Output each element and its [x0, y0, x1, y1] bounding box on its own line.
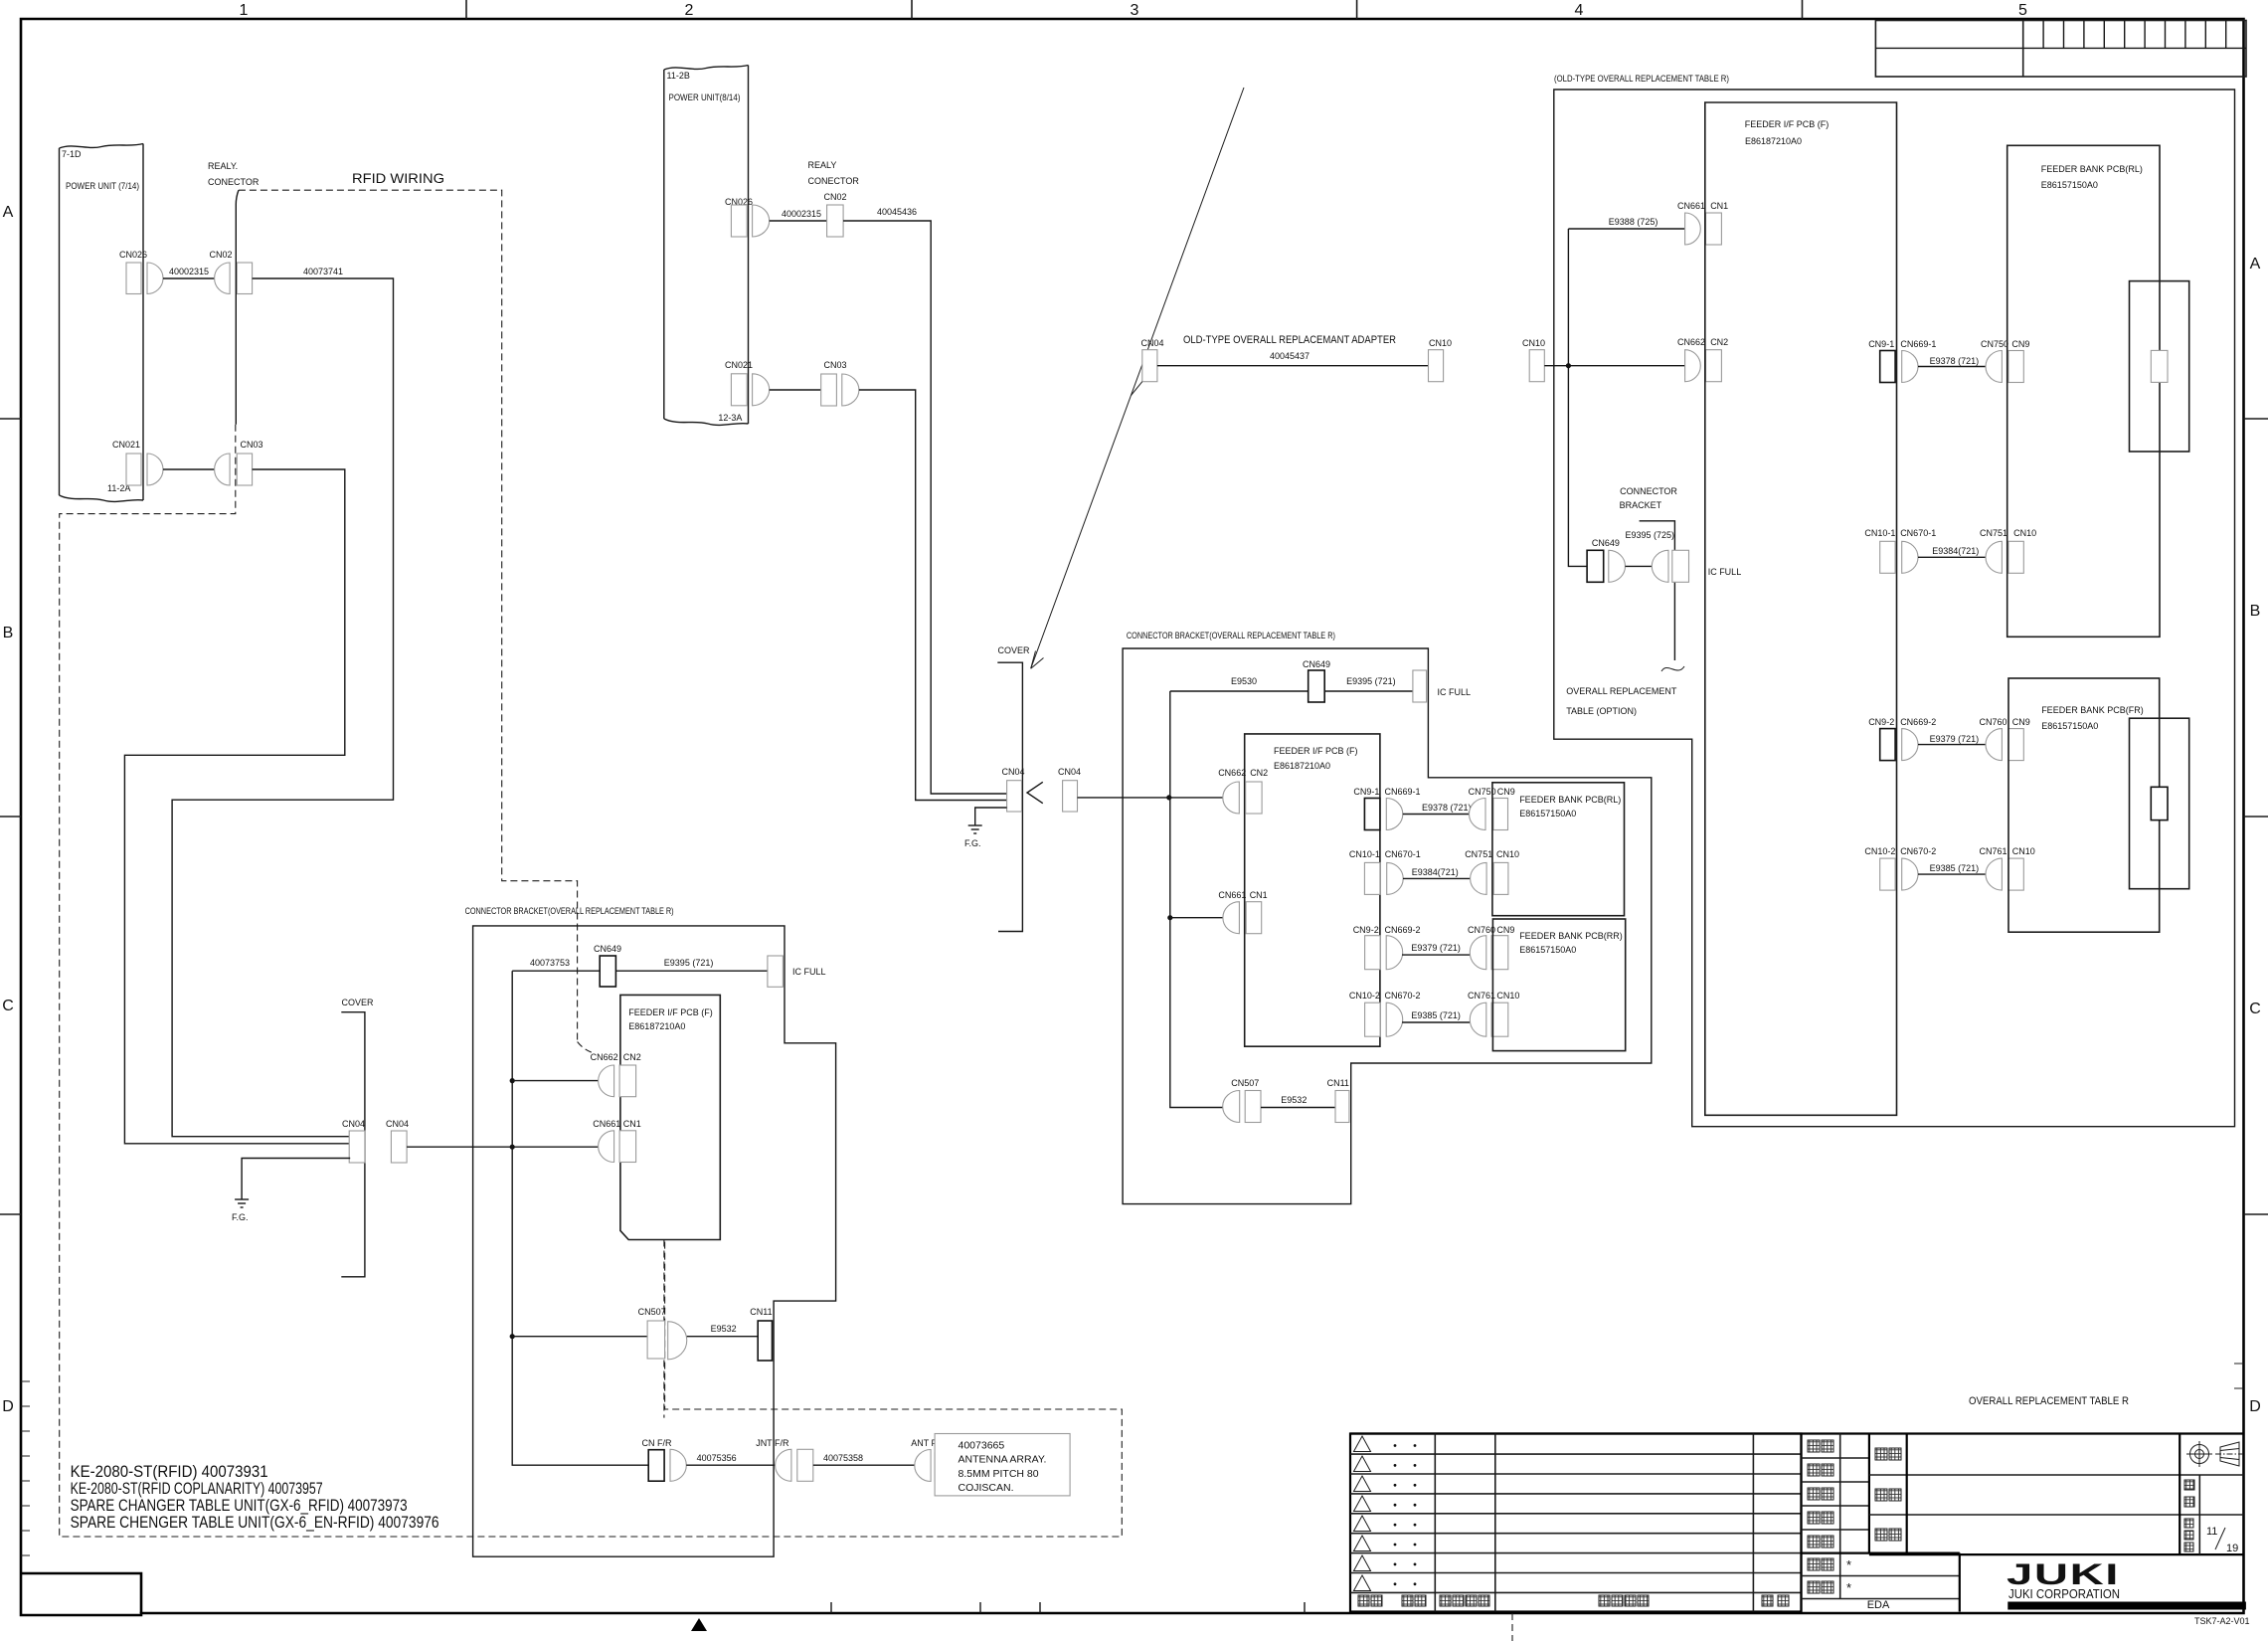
wire CN021-CN03 — [163, 468, 215, 470]
svg-text:CN669-2: CN669-2 — [1900, 717, 1936, 727]
label 型式 — [1875, 1448, 1901, 1460]
connector CN F/R — [642, 1438, 687, 1481]
edge connector bank FR right — [2130, 718, 2189, 889]
svg-text:CN04: CN04 — [1002, 767, 1025, 777]
RFID wiring dashed boundary top — [239, 190, 578, 1041]
svg-text:CN761: CN761 — [1980, 846, 2007, 856]
svg-text:CN649: CN649 — [1303, 659, 1330, 669]
connector CN669-1 mid — [1385, 787, 1421, 830]
connector CN04 free left — [386, 1119, 409, 1163]
svg-text:OLD-TYPE OVERALL REPLACEMANT A: OLD-TYPE OVERALL REPLACEMANT ADAPTER — [1183, 334, 1396, 346]
cover bracket left — [341, 998, 374, 1277]
svg-text:CN04: CN04 — [386, 1119, 409, 1129]
wire CN661 mid — [1170, 917, 1223, 919]
connector CN9 right RL — [2008, 339, 2030, 383]
svg-text:FEEDER I/F PCB (F): FEEDER I/F PCB (F) — [628, 1007, 713, 1017]
row tick right A/B — [2244, 418, 2268, 420]
svg-text:ANTENNA ARRAY.: ANTENNA ARRAY. — [959, 1454, 1047, 1466]
svg-text:E86187210A0: E86187210A0 — [1274, 761, 1330, 771]
svg-text:CN03: CN03 — [823, 360, 846, 370]
connector CN760 mid — [1468, 925, 1495, 970]
svg-text:CN669-2: CN669-2 — [1385, 925, 1421, 935]
svg-text:CN507: CN507 — [1231, 1078, 1259, 1088]
junction right bus — [1566, 363, 1571, 368]
wire CN03 to cover CN04 — [124, 469, 350, 1144]
connector CN021 mid — [725, 360, 770, 406]
svg-text:C: C — [2, 998, 14, 1014]
svg-text:CN11: CN11 — [1327, 1078, 1349, 1088]
connector CN2 right — [1706, 337, 1729, 382]
svg-text:CN1: CN1 — [1250, 890, 1268, 900]
svg-text:CN10-2: CN10-2 — [1349, 991, 1380, 1001]
svg-text:CN10-1: CN10-1 — [1864, 528, 1895, 538]
connector CN9-2 mid — [1353, 925, 1380, 970]
title block top rule — [1350, 1432, 2244, 1434]
svg-text:CONNECTOR: CONNECTOR — [1620, 486, 1677, 496]
svg-text:CN2: CN2 — [1250, 768, 1268, 778]
svg-text:POWER UNIT(8/14): POWER UNIT(8/14) — [669, 92, 741, 102]
svg-text:CN1: CN1 — [623, 1119, 641, 1129]
revision mark triangles and date dots — [1354, 1436, 1371, 1591]
svg-text:CN10-1: CN10-1 — [1349, 849, 1380, 859]
zone tick top 3/4 — [1356, 0, 1358, 19]
connector CN9 right FR — [2008, 717, 2030, 761]
connector CN670-1 right — [1900, 528, 1936, 573]
connector CN662 left — [591, 1052, 618, 1097]
connector CN10 adapter — [1429, 338, 1453, 382]
svg-text:3: 3 — [1131, 2, 1139, 19]
header 変更記事 — [1599, 1595, 1649, 1606]
sheet centre mark triangle — [691, 1618, 707, 1631]
svg-text:40073753: 40073753 — [530, 958, 570, 968]
dashed pcb drop left — [663, 1240, 665, 1418]
connector CN10-1 right — [1864, 528, 1895, 573]
row tick right C/D — [2244, 1213, 2268, 1215]
svg-text:A: A — [2250, 256, 2261, 273]
svg-text:E86187210A0: E86187210A0 — [628, 1021, 685, 1031]
connector CN761 right — [1980, 846, 2007, 890]
right border ruler ticks — [2234, 1364, 2244, 1388]
svg-text:5: 5 — [2018, 2, 2027, 19]
feeder bank pcb RL box mid — [1492, 783, 1625, 916]
connector JNT F/R — [756, 1438, 813, 1481]
svg-text:*: * — [1846, 1557, 1851, 1572]
svg-text:IC FULL: IC FULL — [1438, 687, 1472, 697]
connector bracket outline mid — [1123, 648, 1652, 1204]
svg-text:CN9: CN9 — [2011, 339, 2029, 349]
wire CN10 to CN662 right — [1544, 365, 1684, 367]
svg-text:D: D — [2249, 1398, 2261, 1415]
bracket bus vertical mid — [1170, 691, 1223, 1108]
dashed boundary left — [60, 425, 1123, 1537]
connector CN10 right — [1522, 338, 1545, 382]
svg-text:F.G.: F.G. — [232, 1212, 249, 1222]
svg-text:CONECTOR: CONECTOR — [808, 176, 860, 186]
connector CN02 — [209, 250, 252, 294]
svg-text:OVERALL REPLACEMENT: OVERALL REPLACEMENT — [1566, 686, 1677, 696]
svg-text:12-3A: 12-3A — [718, 413, 742, 423]
svg-text:COVER: COVER — [342, 998, 375, 1007]
connector ANT F/R — [911, 1438, 951, 1482]
svg-text:CN751: CN751 — [1465, 849, 1492, 859]
svg-text:CONECTOR: CONECTOR — [208, 177, 260, 187]
break squiggle — [1661, 666, 1684, 671]
ground symbol F.G. mid — [968, 825, 982, 833]
svg-text:EDA: EDA — [1867, 1599, 1890, 1611]
ground symbol F.G. left — [235, 1199, 249, 1207]
svg-text:CN1: CN1 — [1710, 201, 1728, 211]
connector CN649 mid — [1303, 659, 1330, 702]
feeder i/f pcb box mid — [1245, 734, 1380, 1046]
svg-text:FEEDER I/F PCB (F): FEEDER I/F PCB (F) — [1274, 746, 1358, 756]
connector CN1 right — [1706, 201, 1729, 245]
connector CN751 right — [1980, 528, 2007, 573]
cover bracket mid — [997, 645, 1030, 932]
connector CN507 mid — [1223, 1078, 1261, 1123]
third angle projection symbol — [2186, 1441, 2243, 1467]
wire CN649 right — [1626, 565, 1653, 567]
connector CN11 mid — [1327, 1078, 1349, 1123]
svg-text:CN10: CN10 — [1429, 338, 1452, 348]
model list text — [71, 1463, 439, 1532]
svg-text:CN9-2: CN9-2 — [1868, 717, 1894, 727]
svg-text:CN760: CN760 — [1468, 925, 1495, 935]
page number 11/19 — [2206, 1526, 2238, 1554]
ground wire F.G. left — [242, 1159, 350, 1200]
connector CN9-1 right — [1868, 339, 1895, 383]
svg-text:CN026: CN026 — [119, 250, 147, 260]
svg-text:FEEDER BANK PCB(FR): FEEDER BANK PCB(FR) — [2041, 705, 2144, 715]
svg-text:REALY.: REALY. — [208, 161, 238, 171]
connector CN669-2 right — [1900, 717, 1936, 761]
connector CN661 right — [1677, 201, 1705, 245]
svg-text:40073665: 40073665 — [959, 1440, 1005, 1452]
power unit 11-2B box — [664, 66, 749, 426]
svg-text:CN669-1: CN669-1 — [1385, 787, 1421, 797]
header 変更番号 — [1440, 1595, 1489, 1606]
svg-text:JNT F/R: JNT F/R — [756, 1438, 789, 1448]
connector CN10-1 mid — [1349, 849, 1380, 894]
svg-text:RFID WIRING: RFID WIRING — [352, 170, 444, 186]
svg-text:40073741: 40073741 — [303, 267, 343, 276]
feeder bank pcb FR box right — [2008, 678, 2160, 932]
connector CN662 mid bracket — [1218, 768, 1246, 814]
label 品番 — [1875, 1489, 1901, 1501]
svg-text:CN761: CN761 — [1468, 991, 1495, 1001]
svg-text:CN649: CN649 — [594, 944, 621, 954]
svg-text:E9384(721): E9384(721) — [1932, 546, 1979, 556]
revision history table — [1350, 1434, 1802, 1612]
connector IC FULL right — [1652, 550, 1741, 582]
svg-text:2: 2 — [685, 2, 694, 19]
junction CN661 wire — [510, 1145, 515, 1150]
svg-text:11: 11 — [2206, 1526, 2217, 1538]
label 保管 — [1808, 1558, 1833, 1570]
label 承認 — [1808, 1440, 1833, 1452]
svg-text:D: D — [2, 1398, 14, 1415]
svg-text:E9379 (721): E9379 (721) — [1930, 734, 1980, 744]
label ページ vertical — [2184, 1519, 2193, 1551]
svg-text:CN021: CN021 — [725, 360, 753, 370]
dashed mark below bottom border — [1511, 1613, 1513, 1641]
connector CN661 mid bracket — [1218, 890, 1246, 934]
svg-text:CN2: CN2 — [1710, 337, 1728, 347]
svg-text:CN10: CN10 — [1522, 338, 1545, 348]
svg-text:(OLD-TYPE OVERALL REPLACEMENT: (OLD-TYPE OVERALL REPLACEMENT TABLE R) — [1554, 74, 1729, 84]
svg-text:CN662: CN662 — [1677, 337, 1705, 347]
svg-text:CONNECTOR BRACKET(OVERALL REPL: CONNECTOR BRACKET(OVERALL REPLACEMENT TA… — [465, 906, 674, 916]
svg-text:FEEDER BANK PCB(RL): FEEDER BANK PCB(RL) — [1519, 795, 1621, 805]
svg-text:11-2B: 11-2B — [667, 71, 690, 81]
row tick left B/C — [0, 816, 21, 818]
label 品名 — [1875, 1529, 1901, 1541]
svg-text:CN04: CN04 — [1141, 338, 1164, 348]
svg-text:CN04: CN04 — [342, 1119, 365, 1129]
left border ruler ticks — [21, 1381, 30, 1555]
svg-text:40045436: 40045436 — [877, 207, 917, 217]
svg-text:CN670-2: CN670-2 — [1385, 991, 1421, 1001]
part number block rules — [1869, 1434, 2244, 1555]
relay conector panel line — [236, 190, 239, 425]
connector CN669-2 mid — [1385, 925, 1421, 970]
svg-text:E9385 (721): E9385 (721) — [1930, 863, 1980, 873]
fold box bottom-left — [21, 1573, 141, 1613]
junction CN507 wire — [510, 1334, 515, 1339]
feeder i/f pcb box right — [1705, 102, 1897, 1115]
svg-text:E9379 (721): E9379 (721) — [1411, 943, 1461, 953]
header 担当 — [1762, 1595, 1789, 1606]
svg-text:E86157150A0: E86157150A0 — [2041, 721, 2098, 731]
svg-text:1: 1 — [240, 2, 249, 19]
svg-text:40002315: 40002315 — [169, 267, 209, 276]
svg-text:KE-2080-ST(RFID) 40073931: KE-2080-ST(RFID) 40073931 — [71, 1463, 268, 1481]
label 類似 — [1808, 1581, 1833, 1593]
svg-text:E9385 (721): E9385 (721) — [1411, 1010, 1461, 1020]
svg-text:E9395 (721): E9395 (721) — [1346, 676, 1396, 686]
dashed leader to CN662 — [578, 1042, 594, 1054]
connector CN10 mid RR — [1491, 991, 1519, 1036]
connector CN507 left — [638, 1307, 687, 1360]
feeder i/f pcb box left — [620, 995, 720, 1239]
svg-text:KE-2080-ST(RFID COPLANARITY) 4: KE-2080-ST(RFID COPLANARITY) 40073957 — [71, 1480, 323, 1498]
svg-text:A: A — [3, 204, 14, 221]
feeder bank pcb RL box right — [2007, 145, 2160, 637]
pointer arrow to cover — [1031, 88, 1244, 668]
svg-text:CN02: CN02 — [209, 250, 232, 260]
connector CN04 free mid — [1058, 767, 1081, 812]
svg-text:SPARE CHENGER TABLE UNIT(GX-6_: SPARE CHENGER TABLE UNIT(GX-6_EN-RFID) 4… — [71, 1514, 439, 1532]
revision index strip top-right — [1875, 21, 2246, 78]
svg-text:IC FULL: IC FULL — [1708, 567, 1742, 577]
connector CN03 mid — [821, 360, 859, 406]
power unit 7-1D box — [60, 144, 144, 502]
row tick right B/C — [2244, 816, 2268, 818]
connector IC FULL mid — [1413, 670, 1471, 702]
svg-text:CN9-1: CN9-1 — [1353, 787, 1379, 797]
connector CN9-2 right — [1868, 717, 1895, 761]
svg-text:E9530: E9530 — [1231, 676, 1257, 686]
label 設計 — [1808, 1488, 1833, 1500]
wire to CN662 left — [512, 1080, 599, 1082]
svg-text:POWER UNIT (7/14): POWER UNIT (7/14) — [66, 181, 139, 191]
svg-text:7-1D: 7-1D — [62, 149, 82, 159]
svg-text:E9378 (721): E9378 (721) — [1422, 803, 1472, 813]
label 作成 — [1808, 1536, 1833, 1548]
svg-text:E9395 (721): E9395 (721) — [664, 958, 714, 968]
connector IC FULL left — [768, 956, 826, 987]
svg-text:CN670-2: CN670-2 — [1900, 846, 1936, 856]
svg-text:FEEDER BANK PCB(RR): FEEDER BANK PCB(RR) — [1519, 931, 1623, 941]
junction CN661 mid — [1167, 915, 1172, 920]
connector CN021 — [112, 440, 163, 485]
svg-text:FEEDER I/F PCB (F): FEEDER I/F PCB (F) — [1745, 119, 1830, 129]
svg-text:CN661: CN661 — [593, 1119, 620, 1129]
edge connector bank RL right — [2130, 281, 2189, 452]
wire adapter — [1157, 365, 1429, 367]
svg-text:40045437: 40045437 — [1270, 351, 1309, 361]
connector CN1 left — [619, 1119, 641, 1163]
svg-text:E9532: E9532 — [711, 1324, 737, 1334]
junction CN662 mid — [1166, 795, 1171, 800]
svg-text:TABLE (OPTION): TABLE (OPTION) — [1566, 706, 1637, 716]
svg-text:CN10: CN10 — [1496, 991, 1519, 1001]
connector CN2 left — [619, 1052, 641, 1097]
svg-text:CN11: CN11 — [750, 1307, 772, 1317]
connector CN760 right — [1980, 717, 2007, 761]
svg-text:CN670-1: CN670-1 — [1900, 528, 1936, 538]
connector CN04 cover left — [342, 1119, 365, 1163]
svg-text:FEEDER BANK PCB(RL): FEEDER BANK PCB(RL) — [2041, 164, 2143, 174]
svg-text:CN10: CN10 — [2013, 528, 2036, 538]
svg-text:CN661: CN661 — [1677, 201, 1705, 211]
svg-text:C: C — [2249, 1001, 2261, 1017]
connector CN649 left — [594, 944, 621, 987]
connector CN670-1 mid — [1385, 849, 1421, 894]
svg-text:CN02: CN02 — [823, 192, 846, 202]
connector bracket outline left — [473, 926, 836, 1556]
svg-text:CN10-2: CN10-2 — [1864, 846, 1895, 856]
svg-text:8.5MM PITCH 80: 8.5MM PITCH 80 — [959, 1468, 1039, 1480]
junction CN662 wire — [510, 1078, 515, 1083]
connector CN026 mid — [725, 197, 770, 237]
connector CN10 right FR — [2008, 846, 2035, 890]
row tick left C/D — [0, 1213, 21, 1215]
label 製図 — [1808, 1512, 1833, 1524]
svg-text:OVERALL REPLACEMENT TABLE R: OVERALL REPLACEMENT TABLE R — [1969, 1395, 2129, 1407]
antenna array box — [935, 1434, 1070, 1496]
connector CN9 mid RR — [1491, 925, 1514, 970]
svg-text:CN9-1: CN9-1 — [1868, 339, 1894, 349]
svg-text:4: 4 — [1575, 2, 1584, 19]
connector CN10-2 mid — [1349, 991, 1380, 1036]
mating arrow between CN04s — [1027, 782, 1043, 803]
label 尺度 vertical — [2184, 1480, 2194, 1507]
connector CN662 right — [1677, 337, 1705, 382]
svg-text:CONNECTOR BRACKET(OVERALL REPL: CONNECTOR BRACKET(OVERALL REPLACEMENT TA… — [1127, 631, 1335, 640]
svg-text:COJISCAN.: COJISCAN. — [959, 1482, 1014, 1494]
svg-text:CN9: CN9 — [1497, 787, 1515, 797]
svg-text:E86157150A0: E86157150A0 — [1519, 809, 1576, 819]
zone tick top 4/5 — [1802, 0, 1804, 19]
svg-text:40002315: 40002315 — [782, 209, 821, 219]
svg-text:B: B — [2250, 603, 2261, 620]
svg-text:TSK7-A2-V01: TSK7-A2-V01 — [2194, 1616, 2250, 1626]
wire CN021-CN03 mid — [770, 389, 821, 391]
connector CN04 adapter — [1132, 338, 1164, 396]
svg-text:CN669-1: CN669-1 — [1900, 339, 1936, 349]
svg-text:E9532: E9532 — [1281, 1095, 1307, 1105]
svg-text:E86157150A0: E86157150A0 — [2041, 180, 2098, 190]
connector CN10-2 right — [1864, 846, 1895, 890]
header 日付 — [1402, 1595, 1426, 1606]
connector CN02 mid — [823, 192, 846, 237]
svg-text:CN662: CN662 — [1218, 768, 1246, 778]
svg-text:F.G.: F.G. — [964, 838, 981, 848]
svg-text:CN661: CN661 — [1218, 890, 1246, 900]
wire CN03 to cover CN04 mid — [859, 390, 1007, 801]
svg-text:B: B — [3, 625, 14, 641]
connector CN9-1 mid — [1353, 787, 1380, 830]
svg-text:JUKI CORPORATION: JUKI CORPORATION — [2008, 1587, 2120, 1601]
wire to CN507 — [512, 1336, 647, 1338]
svg-text:CN021: CN021 — [112, 440, 140, 450]
connector CN670-2 right — [1900, 846, 1936, 890]
signoff block rules — [1802, 1434, 1960, 1612]
connector CN1 mid — [1246, 890, 1268, 934]
svg-text:E9378 (721): E9378 (721) — [1930, 356, 1980, 366]
connector CN750 mid — [1469, 787, 1496, 830]
bottom border ticks — [831, 1602, 1305, 1613]
label 検図 — [1808, 1464, 1833, 1476]
svg-text:SPARE CHANGER TABLE UNIT(GX-6_: SPARE CHANGER TABLE UNIT(GX-6_RFID) 4007… — [71, 1497, 408, 1515]
zone tick top 2/3 — [911, 0, 913, 19]
connector CN10 mid RL — [1493, 849, 1519, 894]
connector CN669-1 right — [1900, 339, 1936, 383]
connector CN026 — [119, 250, 163, 294]
old-type table outline — [1554, 90, 2235, 1127]
connector CN03 — [215, 440, 263, 485]
wire CN04 to bracket CN661 — [407, 1146, 599, 1148]
svg-text:BRACKET: BRACKET — [1620, 500, 1662, 510]
svg-text:CN10: CN10 — [2012, 846, 2035, 856]
connector CN04 cover mid — [1002, 767, 1025, 812]
header 記号 — [1358, 1595, 1382, 1606]
svg-text:CN04: CN04 — [1058, 767, 1081, 777]
JUKI block left rule — [1959, 1553, 1961, 1612]
connector CN750 right — [1981, 339, 2008, 383]
svg-text:CN03: CN03 — [240, 440, 262, 450]
connector CN2 mid — [1246, 768, 1269, 814]
svg-text:19: 19 — [2226, 1543, 2238, 1554]
row tick left A/B — [0, 418, 21, 420]
svg-text:*: * — [1846, 1580, 1851, 1595]
connector CN9 mid RL — [1493, 787, 1515, 830]
connector CN661 left — [593, 1119, 620, 1163]
svg-text:CN507: CN507 — [638, 1307, 666, 1317]
svg-text:CN649: CN649 — [1592, 538, 1620, 548]
svg-text:CN9: CN9 — [2012, 717, 2030, 727]
zone tick top 1/2 — [465, 0, 467, 19]
connector CN670-2 mid — [1385, 991, 1421, 1036]
svg-text:CN F/R: CN F/R — [642, 1438, 672, 1448]
connector CN761 mid — [1468, 991, 1495, 1036]
connector CN751 mid — [1465, 849, 1492, 894]
svg-text:IC FULL: IC FULL — [792, 967, 826, 977]
svg-text:CN9: CN9 — [1496, 925, 1514, 935]
svg-text:40075356: 40075356 — [697, 1453, 737, 1463]
connector CN649 right — [1587, 538, 1625, 582]
connector CN11 left — [750, 1307, 772, 1361]
